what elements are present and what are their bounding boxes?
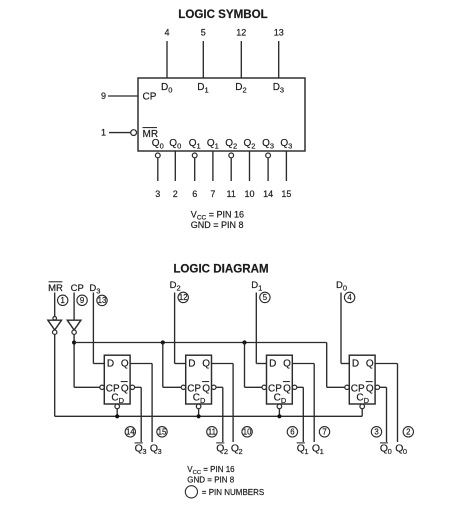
pin 5 circle: [260, 292, 270, 302]
junction MR bus at FF3 CD: [277, 414, 281, 418]
inverter U2 output bubble: [53, 330, 57, 334]
wire CP drop to FF3: [244, 343, 246, 388]
pin 12 circle: [178, 292, 188, 302]
wire D2 into FF: [175, 363, 186, 365]
svg-text:0: 0: [388, 447, 392, 456]
svg-text:7: 7: [322, 428, 326, 437]
pin 10 circle: [242, 427, 252, 437]
pin 3 circle: [371, 427, 381, 437]
FF1 CP input bubble: [100, 385, 104, 389]
svg-text:11: 11: [208, 428, 216, 437]
svg-text:LOGIC DIAGRAM: LOGIC DIAGRAM: [173, 263, 268, 276]
svg-text:2: 2: [224, 447, 228, 456]
wire FF2 Q2-bar output: [216, 386, 223, 388]
pin 10 lead (Q2): [249, 151, 251, 181]
svg-text:13: 13: [98, 296, 107, 305]
D flip-flop FF3 body: [267, 355, 293, 404]
svg-text:D: D: [352, 358, 359, 369]
FF3 Q-bar output bubble: [292, 385, 296, 389]
svg-text:9: 9: [80, 296, 84, 305]
svg-text:1: 1: [320, 447, 324, 456]
pin 15 circle: [157, 427, 167, 437]
FF4 CD input bubble: [360, 404, 365, 409]
inverter U2 input bubble: [53, 317, 57, 321]
svg-text:14: 14: [263, 189, 273, 199]
wire CP net vertical to bus and FF1 CP: [73, 335, 75, 388]
inverter U3 output bubble: [72, 330, 76, 334]
pin 2 circle: [403, 427, 413, 437]
wire D0 vertical: [340, 293, 342, 364]
note: circle = pin numbers: [185, 486, 197, 498]
pin 1 circle: [58, 295, 68, 305]
pin 9 circle: [77, 295, 87, 305]
IC body U1 (logic symbol 74LS175): [138, 78, 305, 151]
svg-text:9: 9: [101, 91, 106, 101]
svg-text:10: 10: [244, 189, 254, 199]
wire D1 into FF: [256, 363, 266, 365]
svg-text:GND = PIN 8: GND = PIN 8: [191, 220, 244, 230]
junction MR bus at FF1 CD: [115, 414, 119, 418]
pin 13 lead (D3 input): [278, 41, 280, 78]
FF4 CP input bubble: [345, 385, 349, 389]
svg-text:4: 4: [347, 293, 352, 302]
svg-text:Q: Q: [202, 358, 210, 369]
svg-text:0: 0: [403, 447, 407, 456]
svg-text:Q: Q: [283, 383, 291, 394]
wire FF4 CD to MR bus: [361, 409, 363, 417]
wire FF2 CD to MR bus: [198, 409, 200, 417]
pin 9 lead (CP input wire): [108, 95, 138, 97]
pin 7 lead (Q1): [212, 151, 214, 181]
FF4 Q-bar output bubble: [375, 385, 379, 389]
svg-text:3: 3: [155, 189, 160, 199]
junction CP bus at FF1: [72, 340, 76, 344]
pin 2 lead (Q0): [174, 151, 176, 181]
svg-text:5: 5: [201, 28, 206, 38]
wire CP vertical into inverter: [73, 293, 75, 321]
svg-text:Q: Q: [366, 358, 374, 369]
svg-text:3: 3: [142, 447, 146, 456]
wire FF1 Q3-bar output: [135, 386, 142, 388]
svg-text:= PIN NUMBERS: = PIN NUMBERS: [202, 488, 264, 497]
FF1 CD input bubble: [115, 404, 120, 409]
wire D2 vertical: [174, 293, 176, 364]
svg-text:1: 1: [61, 296, 65, 305]
wire CP into FF1: [74, 386, 100, 388]
svg-text:CP: CP: [143, 91, 157, 102]
pin 12 lead (D2 input): [240, 41, 242, 78]
wire FF2 Q2 output: [212, 363, 234, 365]
pin 14 circle: [125, 427, 135, 437]
junction MR bus at FF2 CD: [197, 414, 201, 418]
pin 11 lead (Q2-bar): [230, 158, 232, 181]
svg-text:10: 10: [243, 428, 252, 437]
svg-text:1: 1: [101, 128, 106, 138]
svg-text:GND = PIN 8: GND = PIN 8: [187, 476, 234, 485]
pin 5 lead (D1 input): [202, 41, 204, 78]
svg-text:Q: Q: [366, 383, 374, 394]
wire CP drop to FF4: [326, 343, 328, 388]
wire FF1 Q3 output: [130, 363, 152, 365]
pin 6 lead (Q1-bar): [194, 158, 196, 181]
Q3-bar output bubble: [266, 153, 271, 158]
wire MR net vertical down to MR bus: [54, 335, 56, 417]
svg-text:3: 3: [158, 447, 162, 456]
pin 1 lead (MR input wire): [109, 132, 131, 134]
svg-text:15: 15: [158, 428, 167, 437]
svg-text:Q: Q: [121, 358, 129, 369]
pin 4 lead (D0 input): [166, 41, 168, 78]
D flip-flop FF4 body: [349, 355, 375, 404]
D flip-flop FF2 body: [186, 355, 212, 404]
wire D3 into FF: [93, 363, 104, 365]
wire MR bus horizontal: [55, 415, 363, 417]
wire FF1 CD to MR bus: [116, 409, 118, 417]
FF2 CP input bubble: [181, 385, 185, 389]
svg-text:Q: Q: [283, 358, 291, 369]
svg-text:13: 13: [274, 28, 284, 38]
svg-text:2: 2: [406, 428, 410, 437]
svg-text:2: 2: [173, 189, 178, 199]
wire D1 vertical: [255, 293, 257, 364]
junction CP bus at FF2: [161, 340, 165, 344]
svg-text:4: 4: [164, 28, 169, 38]
svg-text:5: 5: [263, 293, 268, 302]
wire D0 into FF: [341, 363, 349, 365]
Q0-bar output bubble: [155, 153, 160, 158]
inverter U3 (CP buffer): [67, 320, 81, 330]
wire MR vertical into inverter: [54, 293, 56, 317]
svg-text:D: D: [188, 358, 195, 369]
FF2 CD input bubble: [196, 404, 201, 409]
pin 3 lead (Q0-bar): [157, 158, 159, 181]
pin 14 lead (Q3-bar): [267, 158, 269, 181]
wire FF3 Q1 output: [292, 363, 314, 365]
FF1 Q-bar output bubble: [130, 385, 134, 389]
Q2-bar output bubble: [229, 153, 234, 158]
svg-text:MR: MR: [48, 283, 63, 294]
svg-text:2: 2: [239, 447, 243, 456]
junction CP bus at FF3: [242, 340, 246, 344]
FF2 Q-bar output bubble: [212, 385, 216, 389]
wire FF4 Q0 output: [375, 363, 397, 365]
svg-text:D: D: [107, 358, 114, 369]
svg-text:D: D: [269, 358, 276, 369]
pin 7 circle: [319, 427, 329, 437]
pin 6 circle: [287, 427, 297, 437]
wire FF3 Q1-bar output: [297, 386, 304, 388]
Q1-bar output bubble: [192, 153, 197, 158]
svg-text:7: 7: [210, 189, 215, 199]
svg-text:15: 15: [281, 189, 291, 199]
FF3 CP input bubble: [262, 385, 266, 389]
wire FF3 CD to MR bus: [278, 409, 280, 417]
pin 4 circle: [344, 292, 354, 302]
svg-text:1: 1: [304, 447, 308, 456]
svg-text:12: 12: [236, 28, 246, 38]
wire FF4 Q0-bar output: [380, 386, 387, 388]
svg-text:12: 12: [179, 293, 188, 302]
svg-text:Q: Q: [121, 383, 129, 394]
wire CP drop to FF2: [162, 343, 164, 388]
wire CP bus horizontal: [74, 342, 327, 344]
FF3 CD input bubble: [277, 404, 282, 409]
D flip-flop FF1 body: [104, 355, 130, 404]
MR input bubble: [131, 130, 137, 136]
svg-text:6: 6: [192, 189, 197, 199]
pin 15 lead (Q3): [285, 151, 287, 181]
svg-text:3: 3: [374, 428, 378, 437]
svg-text:11: 11: [227, 189, 236, 199]
svg-text:CP: CP: [71, 283, 84, 294]
inverter U2 (MR buffer): [48, 320, 62, 330]
svg-text:6: 6: [290, 428, 294, 437]
svg-text:LOGIC SYMBOL: LOGIC SYMBOL: [178, 8, 268, 21]
wire D3 vertical: [92, 293, 94, 364]
pin 11 circle: [207, 427, 217, 437]
svg-text:14: 14: [126, 428, 135, 437]
svg-text:Q: Q: [202, 383, 210, 394]
pin 13 circle: [97, 295, 107, 305]
